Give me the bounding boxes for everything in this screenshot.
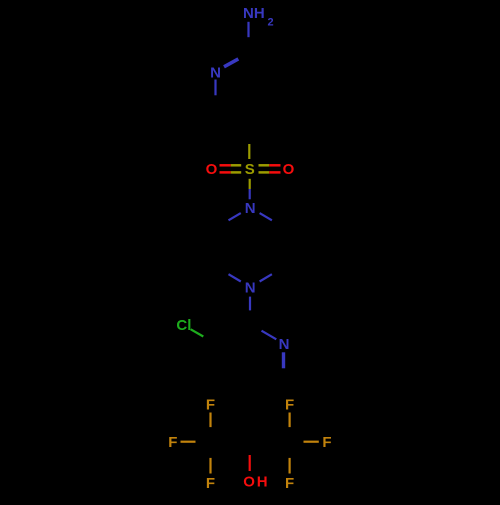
- bond F-C left-CF3 top (F-half): [209, 413, 211, 428]
- bond N1-C6 (pyridine-1, N-half): [214, 80, 216, 96]
- svg-text:2: 2: [268, 16, 274, 28]
- bond N4p-C3p (piperazine, N-half): [260, 274, 272, 281]
- bond NH2-C2 (amine to pyridine C2, N-half): [247, 22, 249, 37]
- svg-text:F: F: [285, 397, 294, 414]
- svg-text:F: F: [168, 434, 177, 451]
- svg-text:H: H: [257, 474, 268, 491]
- svg-text:Cl: Cl: [176, 317, 191, 334]
- svg-text:N: N: [245, 200, 256, 217]
- bond S=O left, line 2: [220, 171, 231, 174]
- svg-text:F: F: [206, 397, 215, 414]
- bond C5-S (S-half): [248, 144, 250, 159]
- bond C2'-N' (pyridine-2, N-half): [262, 331, 277, 340]
- svg-text:F: F: [322, 434, 331, 451]
- bond S-N1p (S-half olive, N-half blue): [249, 179, 251, 189]
- bond C-OH (O-half): [249, 455, 251, 471]
- svg-text:O: O: [283, 161, 295, 178]
- svg-text:O: O: [243, 474, 255, 491]
- bond F-C left-CF3 left (F-half): [181, 441, 196, 443]
- svg-text:F: F: [206, 475, 215, 492]
- bond N4p-C5p (piperazine, N-half): [229, 274, 241, 281]
- svg-text:NH: NH: [243, 5, 265, 22]
- bond S=O left, line 1 (O-half red, S-half olive): [220, 164, 231, 167]
- svg-text:N: N: [279, 336, 290, 353]
- bond F-C right-CF3 right (F-half): [304, 441, 319, 443]
- bond F-C right-CF3 bottom (F-half): [289, 458, 291, 474]
- bond S=O right, line 1: [259, 164, 270, 167]
- bond F-C right-CF3 top (F-half): [289, 413, 291, 428]
- bond C3'-Cl (Cl-half): [191, 329, 204, 336]
- bond N1p-C6p (piperazine, N-half): [229, 213, 241, 220]
- bond N4p-C2' (piperazine N to pyridine-2, N-half): [249, 297, 251, 311]
- bond S=O right, line 2: [259, 171, 270, 174]
- bond N1=C2 double (pyridine-1, N-half): [224, 59, 238, 67]
- bond F-C left-CF3 bottom (F-half): [209, 458, 211, 474]
- bond N'=C6' double (pyridine-2, N-half): [282, 352, 285, 368]
- svg-text:S: S: [245, 161, 255, 178]
- svg-text:N: N: [245, 279, 256, 296]
- svg-text:O: O: [206, 161, 218, 178]
- svg-text:F: F: [285, 475, 294, 492]
- bond N1p-C2p (piperazine, N-half): [260, 213, 272, 220]
- svg-text:N: N: [210, 64, 221, 81]
